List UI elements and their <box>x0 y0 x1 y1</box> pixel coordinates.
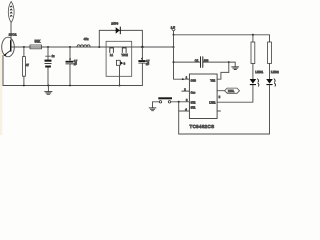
wire supply vertical to IC pin1 <box>174 35 190 79</box>
paper edge tint <box>0 50 2 135</box>
node junction R1 top rail <box>252 34 254 36</box>
capacitor C1 <box>201 57 203 68</box>
inductor L <box>77 45 90 47</box>
resonator X1 <box>225 88 240 93</box>
resistor R3 <box>251 42 255 64</box>
svg-text:LX01: LX01 <box>209 101 216 105</box>
svg-text:TC9462CS: TC9462CS <box>190 124 215 129</box>
wire pin3 junction down to bottom bus <box>178 102 180 134</box>
svg-text:ST1: ST1 <box>191 105 196 109</box>
wire emitter down <box>2 56 4 86</box>
node junction C1 wire <box>173 61 175 63</box>
svg-text:LED2: LED2 <box>271 70 279 74</box>
wire C1 node to IC pin Y02 <box>217 62 229 79</box>
svg-text:C1: C1 <box>195 58 199 62</box>
wire module output lead <box>119 65 121 85</box>
svg-text:uF: uF <box>146 62 149 66</box>
switch S1 wire left <box>153 101 160 103</box>
pin 5 stub right bottom <box>217 110 220 112</box>
svg-text:Y0CE: Y0CE <box>122 54 129 57</box>
node junction R2 bottom <box>23 85 25 87</box>
node junction at C3 top <box>69 46 71 48</box>
svg-text:1.5: 1.5 <box>171 25 176 29</box>
svg-text:2AP9: 2AP9 <box>111 21 118 25</box>
LED D5 LED2 <box>266 79 275 86</box>
switch S1 <box>158 97 172 103</box>
pin 4 stub <box>179 110 190 112</box>
wire ground stem G2 <box>152 102 154 108</box>
wire LED2 cathode down to bus <box>269 85 271 134</box>
wire to capacitor C1 <box>174 61 229 63</box>
wire switch to IC pin3 <box>171 101 190 103</box>
ground symbol G2 <box>149 108 156 111</box>
transistor Q1 <box>2 37 15 57</box>
wire diode bypass loop <box>99 30 142 47</box>
contact L1 inside module <box>110 48 114 53</box>
svg-text:LED1: LED1 <box>255 70 263 74</box>
IC U1 <box>189 74 217 119</box>
pin 2 stub <box>182 90 190 92</box>
node junction module lead on bus <box>119 85 121 87</box>
svg-text:104: 104 <box>204 58 209 62</box>
node pin1 dot <box>182 78 184 80</box>
svg-text:Y02: Y02 <box>210 78 215 82</box>
node junction at C2 top <box>47 46 49 48</box>
node junction supply vertical and signal wire <box>173 46 175 48</box>
resistor R2 <box>23 57 26 77</box>
svg-text:ST2: ST2 <box>191 101 196 105</box>
resistor R1 <box>30 45 42 49</box>
receiver module box U2 <box>106 41 132 76</box>
node junction switch pin3 <box>178 101 180 103</box>
svg-text:Osc: Osc <box>191 90 196 94</box>
wire base to resistor network <box>12 46 174 48</box>
diode D1 <box>116 27 121 35</box>
svg-text:47u: 47u <box>84 37 89 41</box>
capacitor C2 leads and plus tick <box>46 47 51 86</box>
LED D4 LED1 <box>250 79 259 86</box>
capacitor C3 leads <box>69 47 71 86</box>
svg-text:56K: 56K <box>35 39 42 43</box>
svg-text:2SC1: 2SC1 <box>9 33 17 37</box>
svg-text:uF: uF <box>74 62 77 66</box>
contact Y02 inside module <box>122 48 126 53</box>
capacitor C2 <box>45 60 52 68</box>
ground bus left section <box>3 85 142 87</box>
wire IC LED pin to LED1 <box>217 85 253 102</box>
wire R2 leads <box>23 47 25 86</box>
node junction at R2 top <box>23 46 25 48</box>
battery node B1 terminal <box>172 29 175 34</box>
wire R2col leads <box>269 35 271 80</box>
wire top power rail <box>174 34 270 36</box>
node junction diode loop left <box>98 46 100 48</box>
node junction C3 bottom <box>69 85 71 87</box>
capacitor C3 <box>66 61 74 65</box>
wire C1 to ground G3 <box>229 62 235 66</box>
capacitor C4 leads <box>141 47 143 86</box>
svg-text:OS0: OS0 <box>191 78 197 82</box>
node junction C1 right <box>228 61 230 63</box>
ground symbol G3 <box>232 67 239 70</box>
wire IC pin2 right to resonator <box>217 90 225 92</box>
ground symbol G1 <box>45 85 52 95</box>
antenna coil ANT1 <box>8 2 14 23</box>
wire R1 leads <box>252 35 254 80</box>
svg-text:XTAL: XTAL <box>228 89 235 93</box>
bottom bus wire <box>179 133 270 135</box>
resistor R4 <box>268 42 272 64</box>
node junction battery top rail <box>173 34 175 36</box>
node junction C4 top <box>141 46 143 48</box>
wire antenna to transistor collector <box>10 23 12 41</box>
detector D3 inside module <box>116 60 125 65</box>
capacitor C4 <box>138 60 145 63</box>
